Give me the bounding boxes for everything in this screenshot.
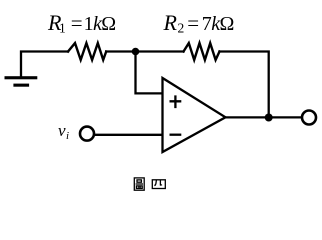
svg-text:R: R [163, 10, 178, 35]
svg-text:=: = [71, 11, 83, 35]
svg-text:v: v [58, 121, 66, 140]
svg-text:7kΩ: 7kΩ [202, 13, 234, 35]
svg-text:2: 2 [178, 21, 185, 36]
svg-text:=: = [187, 11, 199, 35]
svg-text:i: i [66, 130, 69, 142]
svg-text:1: 1 [59, 21, 66, 36]
svg-text:1kΩ: 1kΩ [84, 13, 116, 35]
